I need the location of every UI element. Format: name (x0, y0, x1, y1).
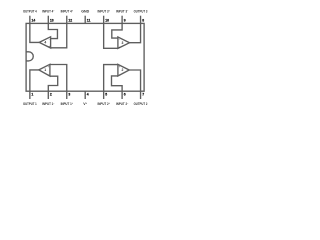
svg-text:3: 3 (68, 92, 70, 96)
pin 4 stub (84, 91, 86, 99)
svg-text:INPUT 1−: INPUT 1− (42, 102, 55, 106)
wire pin7 to A2 output (129, 70, 140, 91)
svg-text:INPUT 1+: INPUT 1+ (61, 102, 74, 106)
wire pin2 to A1 inverting input (48, 76, 57, 91)
svg-text:13: 13 (50, 18, 54, 22)
notch (pin-1 index, left edge) (26, 52, 33, 61)
svg-text:INPUT 3+: INPUT 3+ (98, 10, 111, 14)
svg-text:5: 5 (105, 92, 107, 96)
svg-text:INPUT 2+: INPUT 2+ (98, 102, 111, 106)
svg-text:1: 1 (44, 68, 46, 72)
pin 11 stub (84, 16, 86, 24)
pin 13 stub (47, 16, 49, 24)
svg-text:INPUT 3−: INPUT 3− (116, 10, 129, 14)
svg-text:GND: GND (81, 10, 89, 14)
wire pin8 to A3 output (130, 23, 141, 42)
pin 8 stub (140, 16, 142, 24)
op-amp A3 triangle (118, 37, 130, 48)
svg-text:V+: V+ (83, 102, 87, 106)
svg-text:OUTPUT 2: OUTPUT 2 (134, 102, 148, 106)
svg-text:OUTPUT 1: OUTPUT 1 (23, 102, 37, 106)
top pin labels (23, 10, 148, 14)
op-amp A1 triangle (39, 64, 50, 76)
svg-text:INPUT 4−: INPUT 4− (42, 10, 55, 14)
svg-text:10: 10 (105, 18, 109, 22)
pin numbers, bottom row (31, 92, 144, 96)
svg-text:12: 12 (68, 18, 72, 22)
svg-text:7: 7 (142, 92, 144, 96)
pin 10 stub (103, 16, 105, 24)
input polarity marks (48, 38, 121, 76)
wire pin10 to A3 non-inverting input (104, 23, 118, 48)
pin 3 stub (66, 91, 68, 99)
svg-text:OUTPUT 3: OUTPUT 3 (134, 10, 148, 14)
svg-text:INPUT 2−: INPUT 2− (116, 102, 129, 106)
wire pin6 to A2 inverting input (112, 76, 123, 91)
op-amp A2 triangle (118, 64, 129, 76)
svg-text:4: 4 (44, 41, 46, 45)
svg-text:INPUT 4+: INPUT 4+ (61, 10, 74, 14)
wire pin5 to A2 non-inverting input (104, 65, 118, 92)
svg-text:2: 2 (50, 92, 52, 96)
svg-text:3: 3 (121, 41, 123, 45)
bottom pin labels (23, 102, 148, 106)
svg-text:9: 9 (124, 18, 126, 22)
wire pin9 to A3 inverting input (112, 23, 122, 38)
svg-text:2: 2 (121, 68, 123, 72)
svg-text:6: 6 (124, 92, 126, 96)
pin 14 stub (29, 16, 31, 24)
IC body U1 (DIP-14 outline) (26, 23, 144, 91)
svg-text:OUTPUT 4: OUTPUT 4 (23, 10, 37, 14)
pin 5 stub (103, 91, 105, 99)
pin numbers, top row (32, 18, 145, 22)
svg-text:11: 11 (87, 18, 91, 22)
pin 2 stub (47, 91, 49, 99)
svg-text:8: 8 (142, 18, 144, 22)
svg-text:1: 1 (31, 92, 33, 96)
pin 1 stub (29, 91, 31, 99)
pin 9 stub (121, 16, 123, 24)
pin 6 stub (121, 91, 123, 99)
wire pin3 to A1 non-inverting input (50, 65, 67, 92)
wire pin14 to A4 output (30, 23, 39, 42)
wire pin12 to A4 non-inverting input (51, 23, 67, 47)
pin 12 stub (66, 16, 68, 24)
svg-text:4: 4 (87, 92, 89, 96)
wire pin1 to A1 output (30, 70, 39, 91)
op-amp A4 triangle (39, 37, 50, 48)
svg-text:14: 14 (32, 18, 36, 22)
pin 7 stub (140, 91, 142, 99)
amplifier numbers inside triangles (44, 41, 123, 73)
wire pin13 to A4 inverting input (48, 23, 57, 38)
